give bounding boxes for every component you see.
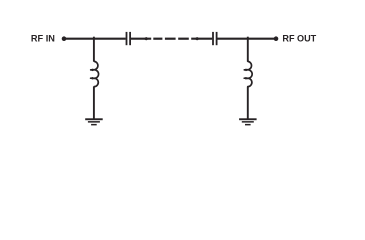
svg-text:RF IN: RF IN (31, 33, 55, 43)
wire left shunt branch top (93, 37, 95, 62)
inductor L2 (244, 61, 252, 86)
ground right (239, 118, 257, 125)
node dot RF OUT (274, 36, 279, 41)
junction arrow marker left (143, 37, 149, 40)
wire dash 2 (165, 38, 176, 40)
wire dash 1 (omitted stages) (153, 38, 162, 40)
wire left shunt branch bottom (93, 87, 95, 119)
inductor L1 (91, 61, 99, 86)
svg-text:RF OUT: RF OUT (282, 33, 316, 43)
wire from dashed section to C2 (191, 38, 212, 40)
ground left (85, 118, 103, 125)
wire dash 3 (178, 38, 189, 40)
wire right shunt branch top (247, 37, 249, 62)
node dot RF IN (62, 36, 67, 41)
capacitor C2 (213, 32, 217, 45)
wire output segment (218, 38, 277, 40)
capacitor C1 (127, 32, 131, 45)
wire right shunt branch bottom (247, 87, 249, 119)
wire input segment (64, 38, 126, 40)
junction arrow marker right (194, 37, 200, 40)
wire from C1 to dashed section (131, 38, 151, 40)
